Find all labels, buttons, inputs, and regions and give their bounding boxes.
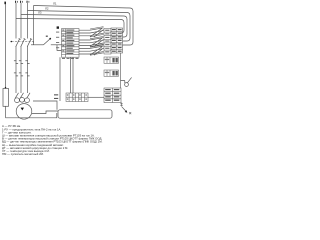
- contactor KM1 contact phase B: [19, 61, 23, 64]
- auxiliary contact SQ wire in: [31, 44, 44, 46]
- circuit breaker QF1 linkage: [12, 41, 35, 43]
- wire bus 2: [28, 11, 131, 42]
- svg-text:ПМ — пускатель магнитный 2М.: ПМ — пускатель магнитный 2М.: [2, 152, 44, 156]
- wire ground down: [5, 106, 7, 118]
- wire XT2 to cabinet: [88, 96, 104, 98]
- wire phase B vertical mid: [20, 47, 22, 94]
- wire bus 4: [16, 19, 124, 34]
- wire XT1 left down: [59, 57, 61, 101]
- contactor KM1 contact phase C: [25, 61, 29, 64]
- terminal block XT3 top: [111, 28, 123, 53]
- cable W2 outline: [90, 36, 104, 46]
- wire ground bottom run: [6, 113, 57, 118]
- XT1 bottom labels: [62, 58, 79, 59]
- wire aux branch: [57, 45, 62, 51]
- relay strip K1: [104, 57, 119, 63]
- XT1 outside labels: [56, 32, 59, 49]
- sensor S1: [125, 83, 129, 87]
- motor M1 terminal loop B: [20, 97, 25, 102]
- cable sleeve (pill): [58, 110, 112, 118]
- motor M1 terminal loop C: [25, 98, 30, 103]
- XT2 cell marks: [67, 94, 87, 99]
- auxiliary contact SQ blade: [44, 39, 50, 45]
- legend text: [2, 124, 103, 156]
- ground electrode box: [3, 89, 9, 107]
- wire phase C vertical top: [27, 3, 29, 39]
- svg-text:Л2: Л2: [45, 7, 49, 11]
- cable W2 twist: [90, 38, 104, 47]
- wire bus 1: [34, 6, 134, 46]
- terminal block XT2: [66, 93, 88, 102]
- wire bus 3: [21, 15, 127, 38]
- wire phase A vertical top: [15, 3, 17, 39]
- wire bundle 1 stubs: [79, 30, 90, 36]
- motor M1 body: [16, 104, 32, 120]
- wire motor aux run: [33, 101, 57, 110]
- cable W1 twist: [90, 28, 104, 37]
- contactor KM1 contact phase A: [14, 61, 18, 64]
- wire-label column: [104, 29, 111, 55]
- circuit breaker QF1 pole 3: [27, 39, 31, 47]
- circuit breaker QF1 pole 1: [16, 39, 20, 47]
- circuit breaker QF1 pole 2: [21, 39, 25, 47]
- XT1 row text marks: [62, 30, 74, 55]
- terminal block XT1: [62, 29, 80, 58]
- node L1 label tick: [15, 1, 16, 3]
- motor M1 terminal loop A: [15, 98, 20, 103]
- wire control tap vertical: [33, 6, 35, 46]
- wire motor to cable: [32, 111, 58, 114]
- motor M1 center mark: [21, 108, 24, 111]
- cable W3 twist: [90, 46, 104, 55]
- plug blade A: [15, 93, 19, 99]
- node L2 label tick: [20, 1, 21, 3]
- thermal relay KK1 element C: [25, 73, 29, 76]
- switch SA1: [121, 103, 123, 107]
- wires XT1 down to XT2: [71, 57, 74, 93]
- wire phase C vertical mid: [27, 47, 29, 94]
- wire bundle 2 stubs: [79, 40, 90, 45]
- wire aux to terminal block: [51, 44, 62, 46]
- plug blade C: [27, 93, 31, 99]
- cable W1 outline: [90, 27, 104, 37]
- plug blade B: [20, 93, 24, 99]
- svg-text:Л3: Л3: [38, 11, 42, 15]
- thermal relay KK1 element A: [14, 73, 18, 76]
- wire phase B vertical top: [20, 3, 22, 39]
- cable W3 outline: [90, 45, 104, 55]
- wire phase A vertical mid: [15, 47, 17, 94]
- wire PE vertical left: [5, 4, 7, 89]
- node A top-left supply tick: [4, 2, 6, 5]
- wire linkage stub: [33, 42, 35, 45]
- wire bundle 3 stubs: [79, 48, 90, 54]
- terminal block XT4 bottom: [104, 88, 121, 103]
- label XT1 corner dot: [57, 26, 59, 28]
- node L3 label tick: [27, 1, 28, 3]
- wire right edge drop: [120, 53, 122, 88]
- svg-text:Л1: Л1: [53, 2, 57, 6]
- relay strip K2: [104, 70, 119, 76]
- XT2 left labels: [54, 94, 58, 99]
- thermal relay KK1 element B: [19, 73, 23, 76]
